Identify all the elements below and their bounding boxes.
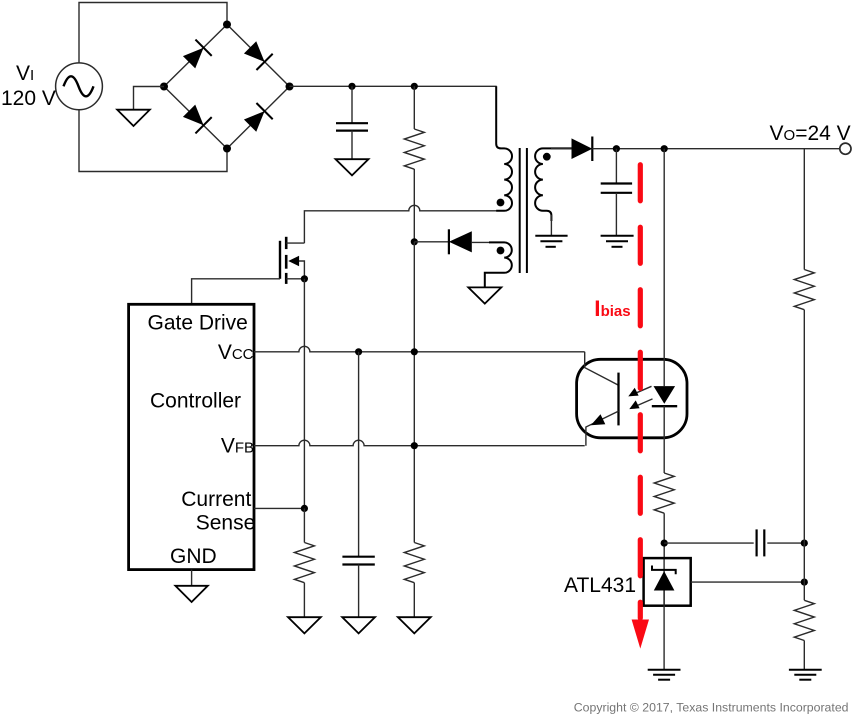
- wire VFB node down to resistor: [413, 446, 415, 543]
- earth ground (secondary): [535, 236, 567, 247]
- transformer aux winding: [485, 242, 512, 287]
- transformer primary winding: [496, 86, 512, 211]
- opto transistor collector: [585, 352, 619, 385]
- opto transistor emitter: [586, 411, 619, 446]
- optocoupler body: [577, 359, 687, 438]
- node VCC-cap: [355, 348, 362, 355]
- svg-text:Copyright © 2017, Texas Instru: Copyright © 2017, Texas Instruments Inco…: [574, 700, 849, 714]
- resistor R_bias: [654, 473, 674, 558]
- opto LED: [652, 386, 677, 406]
- earth ground (divider): [789, 670, 822, 680]
- node VCC-R: [411, 348, 418, 355]
- label 120 V: [1, 87, 56, 110]
- resistor R_cs: [294, 508, 314, 617]
- node rail opto branch: [661, 145, 668, 152]
- wire feedback cap left: [664, 542, 754, 544]
- resistor R_upper: [794, 270, 814, 310]
- node rail C_out: [613, 145, 620, 152]
- wire VFB pin (hops x2): [254, 440, 585, 445]
- node feedback cap right: [801, 540, 808, 547]
- AC source VI 120 V: [56, 63, 103, 110]
- ground (aux): [468, 287, 501, 303]
- capacitor C_fb: [757, 529, 765, 556]
- node bridge right: [286, 83, 294, 91]
- aux phase dot: [497, 247, 505, 255]
- diode D3 (left-bottom arm): [181, 103, 212, 134]
- label Vo=24 V: [770, 122, 851, 145]
- opto emitter arrow: [591, 414, 606, 425]
- wire aux node down to VCC line: [413, 242, 415, 352]
- output terminal: [840, 143, 851, 154]
- node feedback cap left: [661, 540, 668, 547]
- resistor R_lower: [794, 600, 814, 640]
- earth ground (C_out): [601, 236, 634, 247]
- wire VCC cap branch: [358, 352, 360, 557]
- transformer core: [520, 148, 527, 273]
- MOSFET Q1: [280, 237, 304, 284]
- label VI: [16, 62, 34, 85]
- node VFB-R: [411, 442, 418, 449]
- diode bridge arms: [164, 25, 290, 149]
- controller box: [129, 304, 254, 569]
- node aux diode junction: [411, 238, 418, 245]
- ground (R_cs): [288, 617, 321, 633]
- node bridge left: [160, 83, 168, 91]
- ground (controller): [175, 586, 207, 602]
- label Current Sense: [181, 488, 255, 535]
- wire ATL431 anode to ground: [663, 606, 665, 670]
- diode D1 (left-top arm): [181, 40, 212, 71]
- node current sense: [301, 505, 308, 512]
- wire divider middle: [803, 310, 805, 601]
- wire VCC pin (hops over MOSFET source line): [254, 346, 585, 352]
- capacitor C_in: [336, 86, 368, 159]
- node MOSFET source: [301, 275, 308, 282]
- svg-text:ATL431: ATL431: [564, 574, 636, 597]
- wire MOSFET source down: [303, 279, 305, 509]
- svg-text:Controller: Controller: [150, 390, 241, 413]
- ATL431 shunt regulator: [644, 558, 691, 606]
- wire LED to resistor: [663, 406, 665, 473]
- wire output divider top: [803, 149, 805, 270]
- svg-text:Gate Drive: Gate Drive: [148, 312, 248, 335]
- output diode D_out: [572, 137, 593, 162]
- Ibias arrowhead: [632, 620, 649, 649]
- svg-text:Current: Current: [181, 488, 251, 511]
- ground (C_vcc): [342, 617, 375, 633]
- node rail-cap: [348, 83, 355, 90]
- wire LED branch from rail: [663, 149, 665, 386]
- wire R_start to aux node: [413, 169, 415, 242]
- ground (C_in): [336, 159, 369, 175]
- node ref divider: [801, 579, 808, 586]
- svg-text:Sense: Sense: [196, 512, 256, 535]
- resistor R_fb: [404, 543, 424, 618]
- opto transistor bar: [617, 373, 619, 426]
- diode D2 (top-right arm): [242, 39, 273, 70]
- resistor R_start: [404, 86, 424, 169]
- wire feedback cap right: [767, 542, 804, 544]
- wire current sense pin: [254, 507, 304, 509]
- transformer secondary winding: [535, 148, 571, 221]
- wire primary bottom to MOSFET drain (with hop): [304, 205, 496, 243]
- wire VCC node down to VFB node: [413, 352, 415, 446]
- wire aux node to aux diode: [414, 241, 449, 243]
- node bridge bottom: [223, 145, 231, 153]
- wire divider bottom: [803, 641, 805, 670]
- wire aux diode to aux winding: [472, 241, 490, 243]
- wire secondary to output diode: [551, 148, 572, 150]
- wire ATL431 ref: [691, 581, 805, 583]
- wire top-left loop: [79, 3, 227, 63]
- primary phase dot: [497, 199, 505, 207]
- aux diode D_aux: [449, 229, 472, 254]
- svg-text:VO=24 V: VO=24 V: [770, 122, 851, 145]
- capacitor C_out: [601, 149, 632, 236]
- diode D4 (bottom-right arm): [242, 103, 273, 134]
- opto light arrows: [628, 386, 652, 409]
- capacitor C_vcc: [342, 557, 374, 618]
- node rail-resistor: [411, 83, 418, 90]
- secondary phase dot: [543, 153, 551, 161]
- Ibias current path (red dashed): [638, 165, 643, 618]
- ground (bridge left): [117, 110, 150, 126]
- ground (R_fb): [398, 617, 431, 633]
- wire DC rail: [290, 85, 497, 87]
- earth ground (ATL431): [648, 670, 681, 680]
- wire output rail: [592, 148, 840, 150]
- wire gate lead: [192, 279, 280, 305]
- wire bridge left to ground: [134, 87, 165, 110]
- wire GND stub: [191, 570, 193, 586]
- svg-text:120 V: 120 V: [1, 87, 56, 110]
- wire secondary bottom to ground: [550, 215, 552, 236]
- wire bottom-left loop: [79, 110, 227, 172]
- svg-text:GND: GND: [170, 545, 217, 568]
- node bridge top: [223, 21, 231, 29]
